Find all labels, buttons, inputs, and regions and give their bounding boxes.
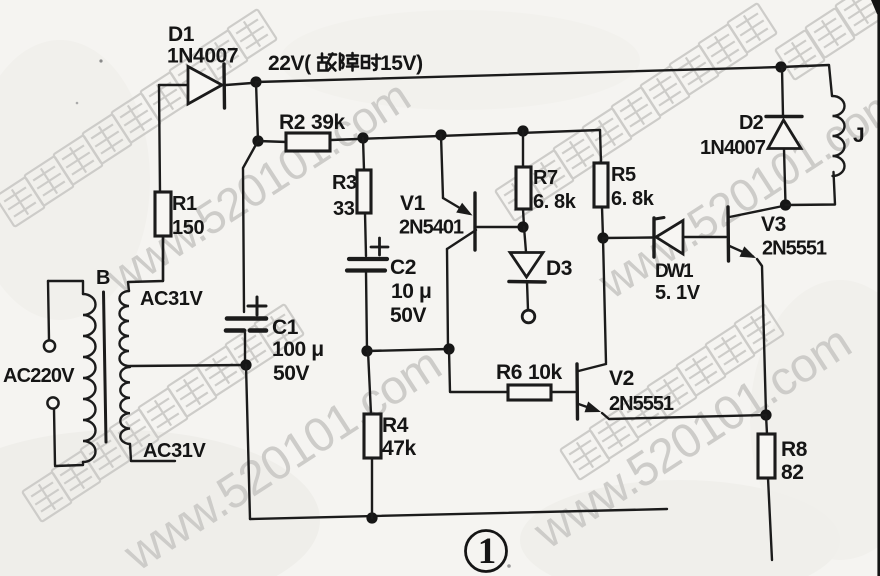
- wire node to C1: [243, 141, 258, 312]
- node V1 emitter column top: [435, 129, 446, 140]
- capacitor C2 plus: [371, 246, 388, 249]
- terminal AC220V top: [44, 340, 55, 351]
- resistor R6: [508, 385, 551, 400]
- svg-text:39k: 39k: [311, 111, 346, 134]
- wire node to R2: [258, 141, 287, 142]
- wire R7 top lead: [522, 131, 524, 167]
- svg-text:R1: R1: [172, 193, 197, 215]
- resistor R5: [594, 163, 608, 207]
- wire mid link: [367, 349, 449, 351]
- wire V2 emitter to R8 node: [602, 413, 766, 419]
- wire rail to relay top: [781, 65, 832, 96]
- svg-text:C2: C2: [390, 256, 416, 279]
- wire V3 emitter column: [757, 259, 766, 414]
- node R4 bottom: [366, 512, 377, 523]
- svg-text:J: J: [853, 124, 864, 147]
- transformer B primary winding: [83, 294, 96, 462]
- wire node to V2 collector: [603, 238, 606, 363]
- node C2 R4 junction: [361, 345, 372, 356]
- resistor R2: [286, 133, 330, 151]
- wire R8 bottom lead: [768, 478, 772, 560]
- svg-text:2N5401: 2N5401: [399, 217, 464, 239]
- wire V1 collector column: [447, 249, 448, 349]
- diode D3: [510, 253, 543, 278]
- wire D1 cathode to node: [226, 83, 252, 85]
- svg-text:R7: R7: [533, 167, 558, 189]
- transistor V3 collector: [730, 206, 784, 217]
- transistor V3 base bar: [726, 207, 730, 261]
- svg-text:R3: R3: [332, 172, 357, 194]
- wire node to R4: [368, 351, 371, 414]
- svg-text:10 μ: 10 μ: [391, 280, 431, 303]
- svg-text:R8: R8: [781, 438, 808, 461]
- svg-text:AC220V: AC220V: [3, 365, 75, 387]
- transistor V2 emitter: [579, 404, 598, 411]
- svg-text:50V: 50V: [273, 362, 310, 385]
- svg-text:AC31V: AC31V: [140, 288, 204, 310]
- wire secondary bottom: [130, 444, 175, 461]
- svg-text:D1: D1: [168, 23, 195, 46]
- svg-text:50V: 50V: [390, 304, 427, 327]
- figure number 1 circle: [466, 531, 507, 572]
- svg-text:150: 150: [172, 217, 204, 239]
- wire DW1 to V3 base: [683, 236, 726, 238]
- node V1 collector junction: [443, 343, 454, 354]
- terminal output: [522, 310, 535, 323]
- svg-text:1: 1: [478, 531, 497, 572]
- svg-text:15V): 15V): [380, 52, 423, 75]
- svg-text:D3: D3: [546, 257, 572, 280]
- svg-text:DW1: DW1: [655, 261, 694, 282]
- wire V1 base link: [477, 226, 522, 228]
- wire D3 to terminal: [527, 282, 528, 310]
- scan speck: [99, 59, 102, 62]
- svg-text:R4: R4: [382, 414, 409, 437]
- watermark: [0, 177, 45, 227]
- svg-text:1N4007: 1N4007: [167, 45, 238, 68]
- wire R4 bottom lead: [371, 458, 373, 518]
- node R8 top junction: [760, 409, 771, 420]
- wire primary bottom: [55, 462, 83, 466]
- resistor R3: [357, 170, 371, 213]
- capacitor C1 plus: [248, 305, 266, 308]
- wire R8 top lead: [766, 415, 767, 434]
- svg-text:47k: 47k: [382, 437, 417, 460]
- svg-text:5. 1V: 5. 1V: [655, 282, 701, 304]
- wire bottom rail: [250, 509, 667, 519]
- node R5 bottom junction: [597, 232, 608, 243]
- transistor V3 emitter: [730, 246, 754, 257]
- svg-text:6. 8k: 6. 8k: [611, 188, 655, 210]
- wire C1 to node: [244, 333, 246, 363]
- wire top rail: [256, 67, 781, 82]
- capacitor C2: [349, 257, 387, 261]
- transistor V1 collector: [447, 230, 476, 249]
- transistor V2 collector: [579, 364, 607, 371]
- wire D2 cathode lead: [782, 68, 783, 116]
- wire secondary top: [128, 236, 163, 291]
- resistor R1: [155, 192, 171, 236]
- wire C2 to node: [366, 272, 367, 351]
- wire R1 top to D1 anode: [159, 85, 187, 192]
- wire R5 bottom lead: [602, 207, 603, 238]
- wire R3 to C2: [365, 213, 366, 256]
- svg-text:B: B: [96, 267, 110, 289]
- wire primary top terminal lead: [48, 281, 49, 340]
- relay coil J: [833, 96, 845, 176]
- svg-text:6. 8k: 6. 8k: [533, 191, 577, 213]
- wire primary top: [48, 281, 83, 294]
- svg-text:2N5551: 2N5551: [762, 238, 827, 260]
- svg-text:R5: R5: [611, 164, 636, 186]
- svg-text:22V(: 22V(: [268, 52, 311, 75]
- svg-text:82: 82: [781, 461, 804, 484]
- svg-text:33: 33: [333, 198, 355, 220]
- wire node to relay: [786, 172, 836, 205]
- svg-text:2N5551: 2N5551: [609, 393, 674, 415]
- transformer B secondary winding upper: [120, 291, 130, 366]
- wire node to R6: [449, 349, 508, 392]
- svg-text:1N4007: 1N4007: [700, 137, 766, 159]
- wire R7 bottom lead: [523, 209, 524, 227]
- node R7 top: [517, 125, 528, 136]
- wire R3 top lead: [363, 138, 364, 170]
- wire D2 anode lead: [784, 149, 786, 204]
- transformer B secondary winding lower: [120, 367, 130, 444]
- node V3 collector junction: [780, 199, 791, 210]
- wire rail end to R5: [600, 130, 601, 163]
- svg-text:10k: 10k: [528, 361, 563, 384]
- svg-text:R2: R2: [279, 111, 305, 134]
- wire node to D3: [524, 227, 526, 252]
- resistor R4: [364, 414, 381, 458]
- node R3 top: [357, 132, 368, 143]
- transistor V1 base bar: [473, 193, 476, 250]
- transformer core: [104, 292, 107, 442]
- diode D2: [766, 115, 802, 118]
- transistor V2 base bar: [575, 364, 579, 419]
- node V1 base junction: [517, 221, 528, 232]
- svg-text:V3: V3: [761, 213, 786, 236]
- diode D1: [188, 67, 222, 105]
- svg-text:V1: V1: [400, 192, 426, 215]
- svg-text:V2: V2: [609, 367, 634, 390]
- wire R6 to V2 base: [551, 391, 575, 393]
- svg-text:100 μ: 100 μ: [272, 338, 324, 361]
- node top-right junction: [775, 61, 786, 72]
- terminal AC220V bottom: [47, 397, 58, 408]
- svg-text:R6: R6: [496, 361, 522, 384]
- node C1 center-tap junction: [240, 359, 251, 370]
- wire R1 bottom: [162, 236, 164, 281]
- scan edge strip: [877, 0, 880, 576]
- wire second rail: [331, 130, 600, 140]
- wire secondary center tap: [130, 365, 246, 366]
- node R2 left junction: [252, 135, 263, 146]
- resistor R7: [516, 167, 531, 209]
- svg-text:D2: D2: [739, 112, 764, 134]
- wire node down: [256, 82, 258, 141]
- svg-text:AC31V: AC31V: [143, 440, 207, 462]
- svg-text:C1: C1: [272, 316, 299, 339]
- capacitor C1: [227, 316, 266, 321]
- resistor R8: [758, 434, 775, 478]
- zener DW1: [652, 218, 655, 257]
- transistor V1 emitter: [443, 198, 469, 214]
- wire primary bottom terminal lead: [54, 409, 55, 465]
- wire C1 node to bottom rail: [246, 365, 250, 519]
- wire V1 emitter lead: [441, 135, 443, 198]
- wire node to DW1: [603, 236, 652, 239]
- node top-left junction: [250, 76, 261, 87]
